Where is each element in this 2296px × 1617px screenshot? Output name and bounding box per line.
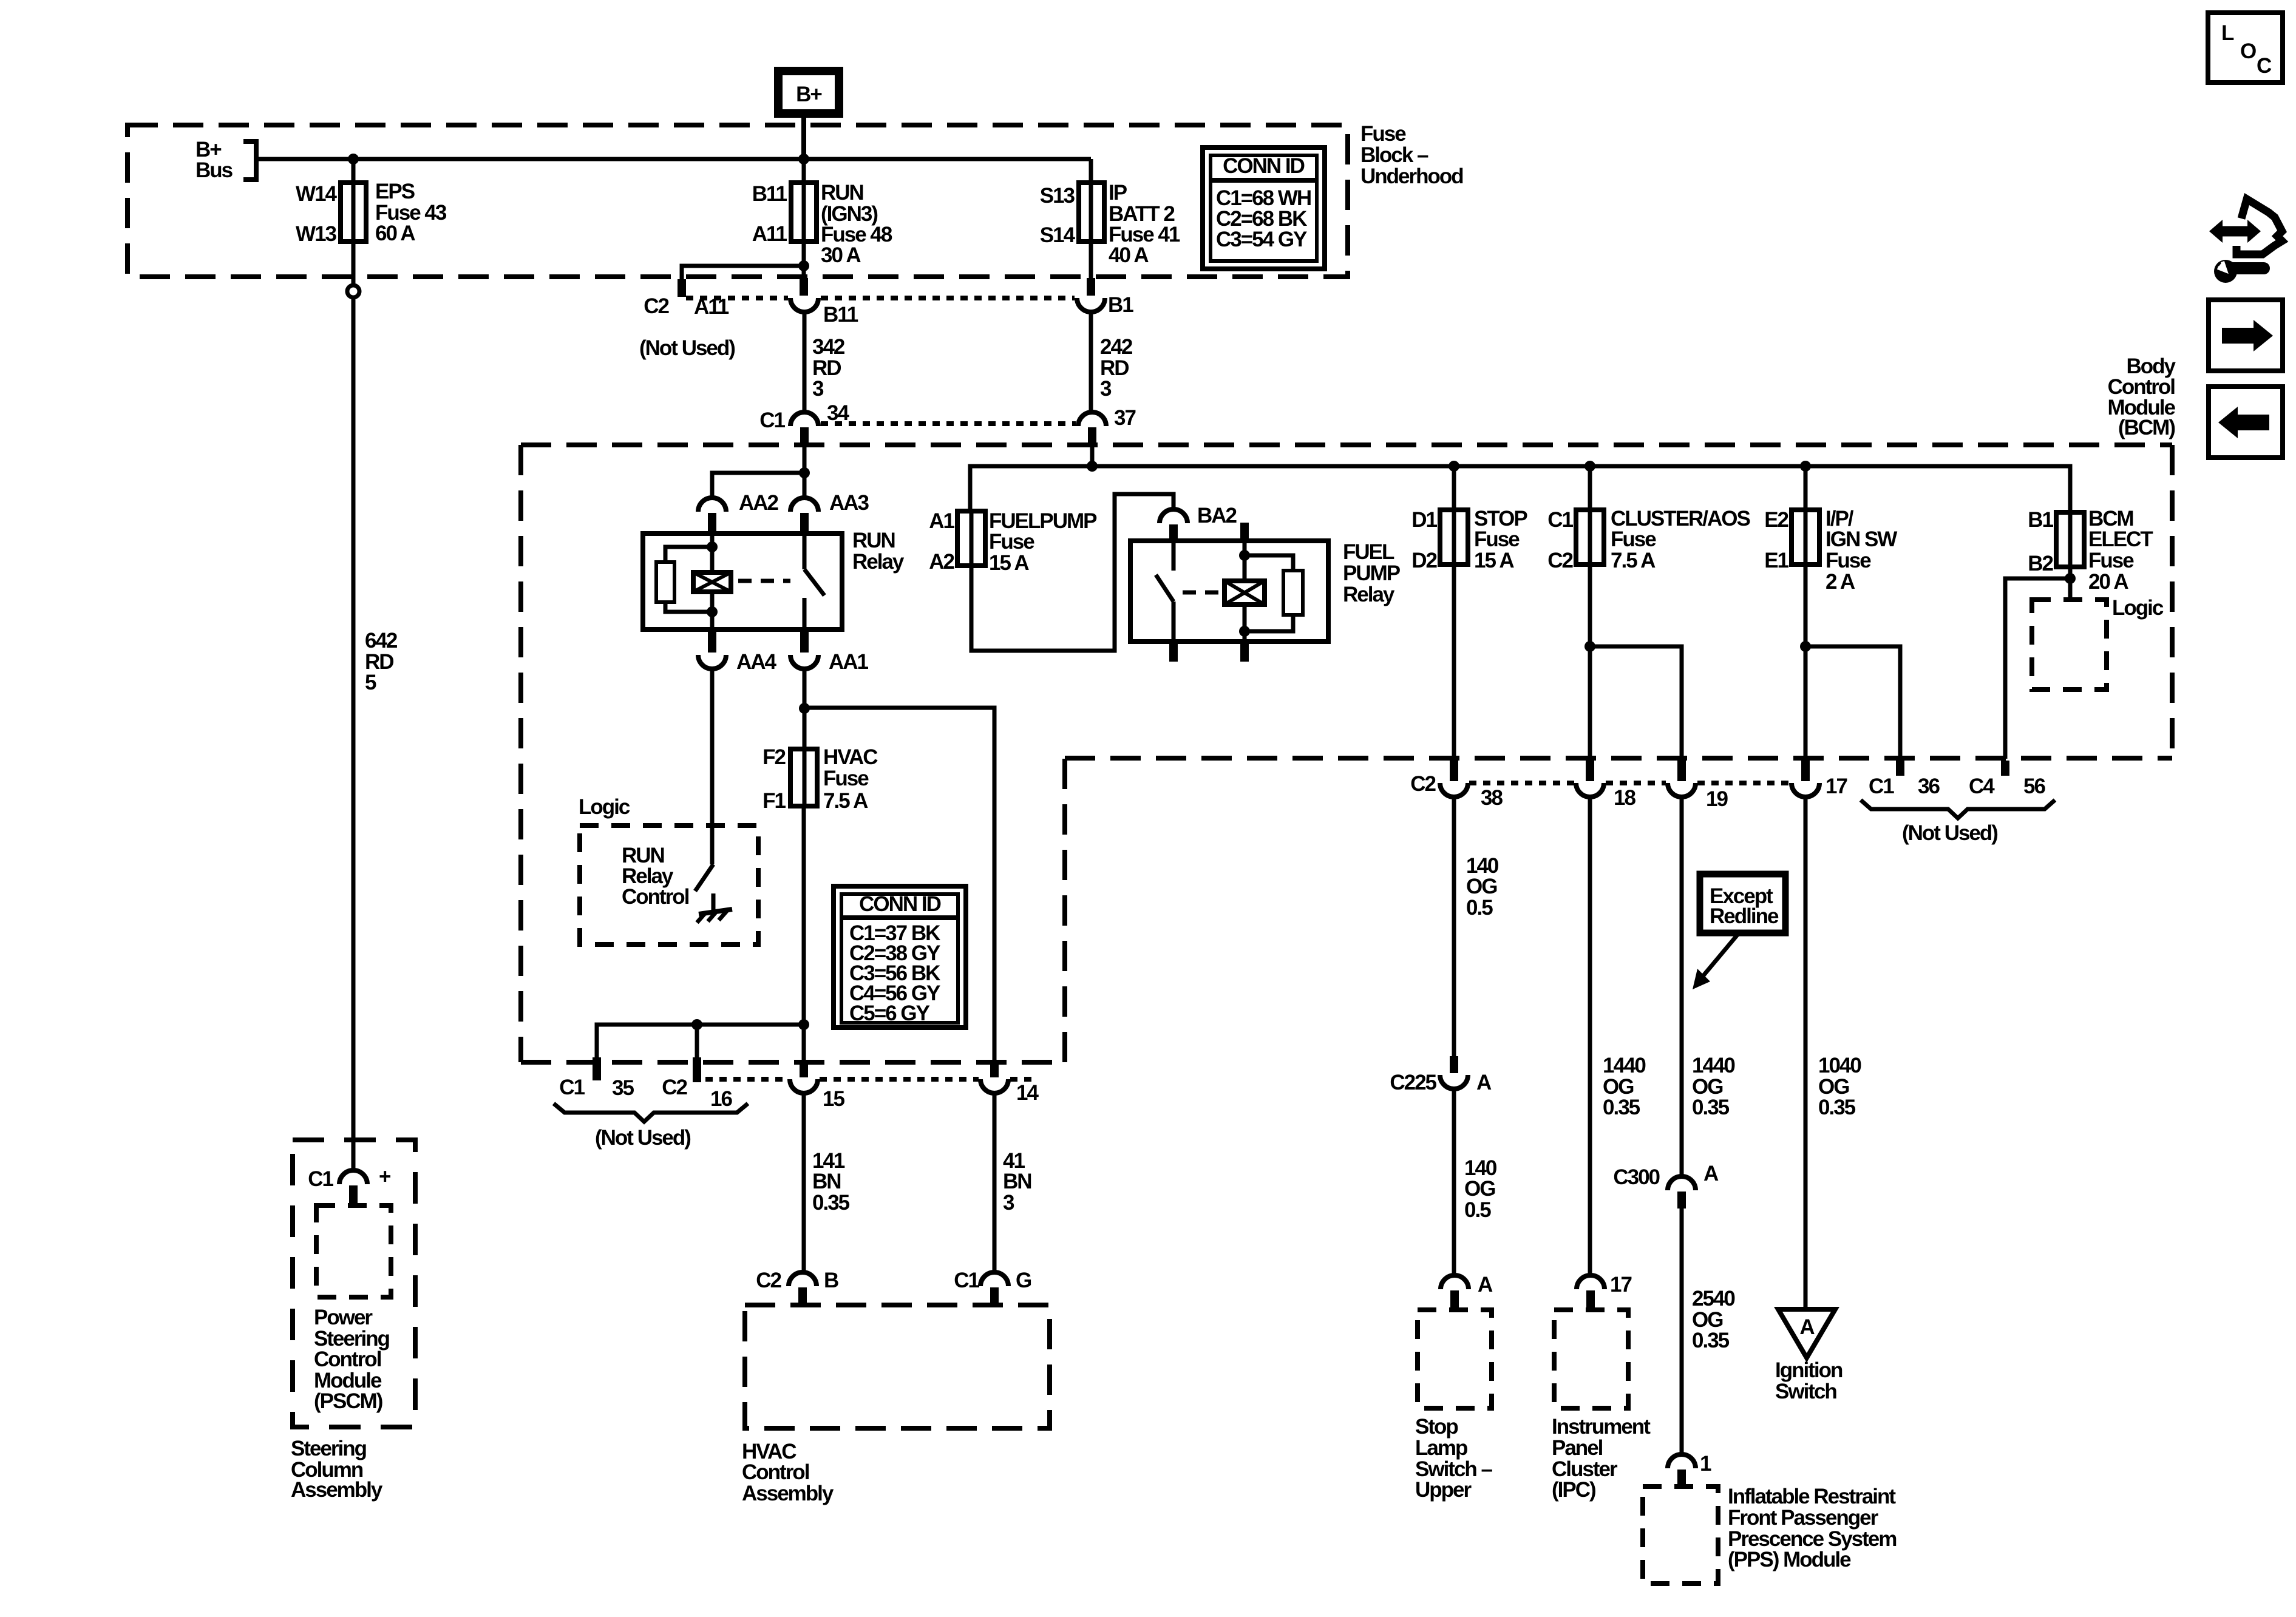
relay RUN box [643,529,905,629]
svg-text:17: 17 [1610,1273,1631,1297]
wire to AA3 [803,444,807,498]
svg-text:3: 3 [812,377,824,401]
wire B2 to logic [2068,512,2073,600]
svg-text:C3=54 GY: C3=54 GY [1216,228,1307,251]
svg-text:G: G [1016,1269,1031,1292]
connector AA2 [698,491,779,534]
svg-text:19: 19 [1706,787,1728,811]
wire BCM internal bus [970,466,2070,512]
relay FUEL PUMP actuation link [1183,591,1221,595]
svg-text:(Not Used): (Not Used) [639,336,735,360]
svg-text:Power: Power [314,1306,373,1329]
Steering Column Assembly box [293,1140,415,1427]
label Stop Lamp Switch Upper [1415,1415,1493,1502]
svg-text:Logic: Logic [579,795,630,819]
svg-text:Upper: Upper [1415,1478,1472,1502]
wire 2540 OG 0.35 [1682,1209,1735,1455]
svg-text:1440: 1440 [1603,1054,1646,1077]
connector C2 pin B [756,1269,838,1307]
svg-text:O: O [2240,39,2256,63]
svg-text:F2: F2 [763,745,786,769]
svg-text:A1: A1 [929,509,954,533]
svg-text:Switch: Switch [1775,1380,1836,1403]
svg-text:0.35: 0.35 [812,1191,850,1215]
fuse CLUSTER/AOS 7.5A [1547,507,1750,572]
wire B+ bus [256,157,1091,161]
junction bus-IPIGNSW [1800,461,1811,472]
svg-text:C: C [2257,54,2272,78]
svg-text:(IPC): (IPC) [1552,1478,1595,1502]
svg-text:242: 242 [1100,335,1133,359]
wire branch to pin 56 [2005,578,2070,759]
svg-text:B11: B11 [752,182,787,206]
wire FUELPUMP fuse to BA2 [971,494,1173,651]
svg-text:B11: B11 [823,303,858,327]
relay FUEL PUMP switch [1156,541,1173,642]
connector pin 1 PPS [1668,1452,1711,1488]
Instrument Panel Cluster box [1554,1310,1628,1408]
fuse STOP 15A [1411,507,1527,572]
wire HVAC fuse to pin 15 [802,806,806,1025]
svg-text:7.5 A: 7.5 A [1611,549,1656,572]
connector C300 pin A [1613,1162,1719,1209]
connector C225 pin A [1390,1056,1492,1094]
svg-text:Control: Control [622,885,689,909]
wire 242 RD 3 [1091,312,1133,413]
label Fuse Block - Underhood [1360,122,1463,188]
wire 41 BN 3 [994,1093,1031,1273]
label Instrument Panel Cluster (IPC) [1552,1415,1651,1502]
junction collector C2 [691,1019,702,1030]
junction bus-RUN [798,154,809,164]
svg-text:(Not Used): (Not Used) [595,1126,690,1150]
junction AA1-HVAC [799,703,810,714]
node B+ Bus label [195,138,256,182]
junction IGN SW branch [1800,641,1811,652]
svg-text:EPS: EPS [375,180,415,203]
svg-text:Panel: Panel [1552,1436,1603,1460]
svg-text:Stop: Stop [1415,1415,1458,1439]
fuse I/P IGN SW 2A [1764,507,1897,594]
wire AA1 to HVAC fuse [803,708,807,807]
svg-text:IGN SW: IGN SW [1826,527,1897,551]
connector B1 [1077,242,1133,317]
wire branch to pin 14 [804,708,994,1060]
svg-text:C1: C1 [1547,508,1573,532]
wire 1040 OG 0.35 [1805,797,1861,1309]
svg-text:D2: D2 [1411,549,1437,572]
svg-text:Logic: Logic [2112,596,2164,620]
wire 1440 OG 0.35 IPC [1590,797,1646,1276]
svg-text:RUN: RUN [821,181,863,205]
connector AA1 [790,629,869,674]
wire not-used collector [597,1025,804,1059]
svg-text:OG: OG [1464,1177,1495,1201]
junction A11 branch [798,260,809,271]
svg-text:Bus: Bus [195,158,233,182]
svg-text:Redline: Redline [1710,904,1779,928]
svg-text:40 A: 40 A [1109,243,1149,267]
label Steering Column Assembly [291,1437,383,1502]
connector BA2 [1160,504,1237,541]
svg-text:Fuse: Fuse [1360,122,1406,146]
svg-text:S14: S14 [1040,223,1076,247]
svg-text:E2: E2 [1764,508,1788,532]
svg-text:C2: C2 [756,1269,781,1292]
svg-text:1440: 1440 [1692,1054,1735,1077]
junction bus-CLUSTER [1584,461,1595,472]
HVAC Control Assembly box [745,1305,1050,1428]
junction bus-STOP [1449,461,1459,472]
brace not used pins 35 16 [554,1103,748,1150]
svg-text:C1: C1 [1869,775,1894,798]
wire 37 to BCM bus [1090,444,1095,466]
junction bus-EPS [348,154,359,164]
wire bus corner to IP fuse [1089,159,1093,277]
svg-text:Control: Control [314,1347,381,1371]
svg-text:60 A: 60 A [375,222,415,245]
node B+ terminal [778,71,839,114]
wire AA1 down [803,669,807,708]
connector pin 18 [1576,761,1635,810]
svg-text:B2: B2 [2028,552,2053,575]
svg-text:C5=6 GY: C5=6 GY [849,1002,930,1025]
svg-text:Fuse: Fuse [1611,527,1656,551]
Stop Lamp Switch box [1418,1310,1492,1408]
svg-text:0.35: 0.35 [1603,1096,1640,1119]
fuse RUN (IGN3) Fuse 48 30A [752,181,892,267]
svg-text:BN: BN [1003,1170,1031,1193]
label Ignition Switch [1775,1358,1843,1403]
svg-text:C2: C2 [644,294,669,318]
wire bus to pin 18 [1588,466,1592,759]
connector C4 pin 56 not used [1969,761,2045,798]
connector C2 pin 16 not used [662,1025,732,1111]
svg-text:37: 37 [1114,406,1135,430]
svg-text:17: 17 [1826,775,1847,798]
svg-text:642: 642 [365,629,398,653]
junction B2 branch [2065,573,2076,584]
svg-text:OG: OG [1466,875,1497,898]
svg-text:0.35: 0.35 [1818,1096,1856,1119]
svg-text:Fuse: Fuse [989,530,1034,554]
relay RUN actuation link [738,579,790,583]
CONN ID table fuse block [1203,147,1325,269]
svg-text:2 A: 2 A [1826,570,1855,594]
svg-text:AA1: AA1 [829,650,869,674]
svg-text:C1: C1 [954,1269,979,1292]
svg-text:15: 15 [823,1087,844,1111]
svg-text:C225: C225 [1390,1071,1436,1094]
relay RUN resistor [656,547,712,612]
svg-text:15 A: 15 A [989,551,1029,575]
svg-text:Inflatable Restraint: Inflatable Restraint [1728,1485,1896,1508]
wire bus to RUN fuse [802,159,806,278]
PSCM inner box [316,1205,391,1297]
svg-text:A: A [1799,1315,1815,1339]
BCM logic box [2032,596,2164,690]
svg-text:Fuse: Fuse [1474,527,1520,551]
connector C1 pin + PSCM [308,1165,391,1204]
svg-text:3: 3 [1100,377,1112,401]
svg-text:+: + [379,1165,391,1188]
svg-text:CONN ID: CONN ID [859,892,941,916]
svg-text:E1: E1 [1764,549,1788,572]
svg-text:AA3: AA3 [829,491,869,515]
junction CLUSTER branch [1584,641,1595,652]
brace not used pins 36 56 [1861,800,2055,845]
svg-text:C4: C4 [1969,775,1995,798]
connector C1 pin 35 not used [559,1057,634,1100]
wire branch to pin 19 [1590,646,1682,759]
wire 140 OG 0.5 upper [1454,797,1499,1058]
svg-text:FUEL: FUEL [1343,540,1394,564]
ground chassis [697,909,732,923]
connector pin A stop lamp [1441,1273,1493,1309]
wire B+ to bus [801,118,806,159]
svg-text:A2: A2 [929,550,954,574]
svg-text:B1: B1 [2028,508,2053,532]
svg-text:C2: C2 [662,1076,687,1099]
label Body Control Module (BCM) [2108,354,2176,439]
svg-text:Block –: Block – [1360,143,1428,167]
svg-text:0.5: 0.5 [1466,896,1493,920]
svg-text:ELECT: ELECT [2088,527,2153,551]
fuse IP BATT 2 Fuse 41 40A [1040,181,1180,267]
collision repair icon [2209,199,2282,283]
connector pin 19 [1668,761,1728,811]
connector pin 17 IPC [1577,1273,1631,1309]
fuse FUELPUMP 15A [929,509,1097,575]
label HVAC Control Assembly [742,1440,834,1505]
connector row dotted line 15-14 [705,1077,1032,1082]
Except Redline callout box [1700,874,1785,933]
svg-text:20 A: 20 A [2088,570,2128,594]
svg-text:B+: B+ [796,83,822,106]
wire branch to pin 36 [1805,646,1900,759]
svg-text:AA2: AA2 [739,491,779,515]
svg-text:Front Passenger: Front Passenger [1728,1506,1879,1530]
svg-text:1: 1 [1700,1452,1711,1476]
svg-text:Fuse: Fuse [2088,549,2134,572]
svg-text:Relay: Relay [1343,583,1395,606]
wire 140 OG 0.5 lower [1454,1089,1497,1276]
svg-text:B1: B1 [1108,293,1133,317]
svg-text:342: 342 [812,335,845,359]
junction RUN coil top [707,541,718,552]
connector B11 [790,278,858,327]
wire branch to A11 pin [682,266,804,297]
svg-text:A11: A11 [694,295,729,319]
svg-text:Assembly: Assembly [742,1482,834,1505]
svg-text:C1: C1 [308,1167,333,1191]
relay RUN switch [804,534,824,629]
switch RUN relay control [695,864,713,910]
svg-text:30 A: 30 A [821,243,861,267]
svg-text:Fuse: Fuse [1826,549,1871,572]
svg-text:(Not Used): (Not Used) [1902,821,1997,845]
svg-text:C1: C1 [759,408,785,432]
wire 642 RD 5 [353,297,398,1170]
connector row dotted line C2 [686,296,1075,300]
fuse BCM ELECT 20A [2028,507,2153,594]
svg-text:D1: D1 [1411,508,1437,532]
label Power Steering Control Module (PSCM) [314,1306,390,1413]
svg-text:CONN ID: CONN ID [1223,154,1305,178]
svg-text:38: 38 [1481,786,1503,810]
svg-text:0.35: 0.35 [1692,1096,1730,1119]
svg-text:F1: F1 [763,789,786,813]
svg-text:2540: 2540 [1692,1287,1735,1310]
wire branch to AA2 [712,473,804,498]
svg-text:Instrument: Instrument [1552,1415,1651,1439]
wire 141 BN 0.35 [804,1093,850,1273]
next page arrow icon [2209,300,2283,371]
Fuse Block - Underhood box [127,125,1348,277]
PPS module box [1643,1486,1718,1584]
connector C1 pin 34 [759,401,849,444]
svg-text:(PSCM): (PSCM) [314,1389,382,1413]
LOC icon [2208,13,2283,83]
svg-text:HVAC: HVAC [823,745,878,769]
svg-text:Relay: Relay [852,550,905,574]
wire 1440 OG 0.35 to C300 [1682,797,1735,1177]
BCM logic box left [579,795,758,944]
label C2 A11 (Not Used) [639,294,735,360]
junction coil top [1239,550,1250,561]
wire bus to pin 17 [1804,466,1808,759]
svg-text:A11: A11 [752,222,787,246]
junction bus-37 [1087,461,1098,472]
svg-text:Ignition: Ignition [1775,1358,1843,1382]
svg-text:14: 14 [1016,1081,1039,1105]
connector row dotted line 38-17 [1469,781,1790,785]
junction collector main [798,1019,809,1030]
callout arrow [1693,935,1737,989]
connector pin 15 [790,1025,844,1111]
svg-text:Lamp: Lamp [1415,1436,1467,1460]
svg-text:(BCM): (BCM) [2118,416,2175,439]
connector pin 14 [980,1061,1039,1105]
connector C1 pin 36 not used [1869,761,1940,798]
relay FUEL PUMP pin stubs [1173,523,1245,662]
wire AA4 to run relay control [710,669,715,864]
fuse HVAC 7.5A [763,745,878,813]
svg-text:15 A: 15 A [1474,549,1514,572]
svg-text:Steering: Steering [291,1437,367,1460]
connector row dotted line 34-37 [821,421,1076,426]
svg-text:C2: C2 [1547,549,1573,572]
svg-text:56: 56 [2023,775,2045,798]
svg-text:C2: C2 [1410,772,1436,796]
junction AA3 branch [799,467,810,478]
wire bus to EPS fuse [352,159,356,277]
svg-text:Underhood: Underhood [1360,164,1463,188]
svg-text:Control: Control [742,1460,809,1484]
relay FUEL PUMP resistor [1245,555,1303,631]
connector bullet EPS wire [347,242,359,297]
svg-text:A: A [1703,1162,1719,1185]
svg-text:AA4: AA4 [736,650,777,674]
connector pin 17 [1792,761,1847,798]
connector AA3 [790,491,869,534]
svg-text:3: 3 [1003,1191,1014,1215]
svg-text:16: 16 [710,1087,732,1111]
prev page arrow icon [2209,387,2283,458]
wire 342 RD 3 [804,312,845,413]
svg-text:A: A [1478,1273,1493,1297]
svg-text:36: 36 [1918,775,1940,798]
svg-text:0.5: 0.5 [1464,1198,1491,1222]
svg-text:(PPS) Module: (PPS) Module [1728,1548,1851,1571]
svg-text:18: 18 [1614,786,1635,810]
wire bus to pin 38 [1452,466,1456,759]
svg-text:W13: W13 [296,222,337,246]
relay FUEL PUMP coil [1224,541,1265,642]
label Inflatable Restraint PPS Module [1728,1485,1896,1571]
svg-text:BA2: BA2 [1197,504,1237,527]
svg-text:5: 5 [365,671,376,694]
svg-text:Fuse: Fuse [823,767,869,790]
junction coil bottom [1239,626,1250,637]
connector AA4 [698,629,777,674]
CONN ID table BCM [834,886,966,1028]
junction RUN coil bottom [707,606,718,617]
label RUN Relay Control [622,844,689,909]
svg-text:PUMP: PUMP [1343,561,1401,585]
svg-text:0.35: 0.35 [1692,1329,1730,1352]
connector C1 pin G [954,1269,1031,1307]
svg-text:S13: S13 [1040,184,1075,208]
svg-text:IP: IP [1109,181,1127,205]
svg-text:7.5 A: 7.5 A [823,789,868,813]
svg-text:BN: BN [812,1170,841,1193]
svg-text:35: 35 [612,1076,634,1100]
svg-text:Assembly: Assembly [291,1478,383,1502]
connector pin 37 [1078,406,1135,444]
svg-text:B: B [824,1269,838,1292]
connector C2 pin 38 [1410,761,1503,810]
svg-text:A: A [1476,1071,1492,1094]
svg-text:RUN: RUN [852,529,895,552]
Body Control Module box [521,445,2172,1062]
power symbol A ignition switch [1778,1309,1835,1358]
fuse EPS Fuse 43 60A [296,180,447,246]
relay FUEL PUMP box [1130,540,1401,642]
svg-text:C300: C300 [1613,1165,1660,1189]
relay RUN coil [693,534,731,629]
svg-text:W14: W14 [296,182,338,206]
svg-text:L: L [2221,21,2234,45]
svg-text:1040: 1040 [1818,1054,1861,1077]
svg-text:C1: C1 [559,1076,585,1099]
